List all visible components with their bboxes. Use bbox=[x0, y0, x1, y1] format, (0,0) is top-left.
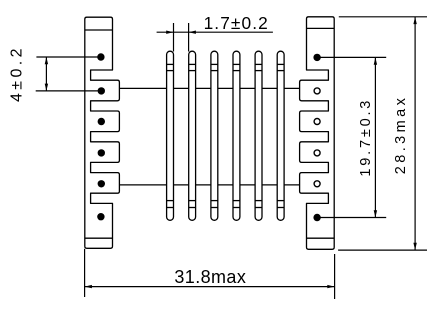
right flange top cap line bbox=[307, 27, 335, 29]
svg-text:28.3max: 28.3max bbox=[393, 95, 409, 174]
dim 31.8 dimension line bbox=[85, 286, 335, 288]
svg-text:19.7±0.3: 19.7±0.3 bbox=[358, 98, 374, 177]
fin 2 bbox=[189, 51, 196, 220]
dim 4 extension line b bbox=[36, 90, 101, 92]
left flange outline bbox=[85, 17, 120, 248]
svg-text:4±0.2: 4±0.2 bbox=[8, 45, 25, 102]
fin 1 bbox=[167, 51, 174, 220]
arrow 19.7 top (points up) bbox=[374, 57, 377, 64]
arrow 28.3 top (points up) bbox=[413, 17, 416, 24]
dim 19.7 leader top bbox=[317, 56, 386, 58]
fin 6 bbox=[277, 51, 284, 220]
dim 4 dimension line bbox=[45, 57, 47, 91]
right flange pin dots (filled) bbox=[313, 54, 320, 222]
arrow 4 bottom (points down) bbox=[45, 84, 48, 91]
dim 31.8 extension left bbox=[84, 249, 86, 297]
wire: upper winding line bbox=[119, 87, 299, 89]
dim 1.7 extension line a bbox=[173, 23, 175, 52]
dim 1.7 extension line b bbox=[188, 23, 190, 52]
arrow 31.8 left (points left) bbox=[85, 285, 92, 288]
dim 28.3 extension top bbox=[339, 16, 427, 18]
dim 19.7 dimension line bbox=[374, 57, 376, 217]
svg-text:1.7±0.2: 1.7±0.2 bbox=[204, 13, 269, 33]
dim 4 extension line a bbox=[36, 56, 101, 58]
fin band lines bottom bbox=[167, 201, 285, 208]
left flange top cap line bbox=[85, 29, 113, 31]
arrow 28.3 bottom (points down) bbox=[413, 243, 416, 250]
dim 28.3 dimension line bbox=[414, 17, 416, 250]
wire: lower winding line bbox=[119, 184, 299, 186]
left flange pin dots bbox=[97, 53, 105, 220]
right flange outline bbox=[300, 17, 335, 250]
dim 19.7 leader bottom bbox=[317, 217, 386, 219]
svg-text:31.8max: 31.8max bbox=[174, 267, 246, 287]
fin 3 bbox=[211, 51, 218, 220]
left flange bottom cap line bbox=[85, 237, 113, 239]
right flange bottom cap line bbox=[307, 237, 335, 239]
dim 31.8 extension right bbox=[334, 254, 336, 299]
dim 28.3 extension bottom bbox=[338, 249, 427, 251]
arrow 31.8 right (points right) bbox=[327, 285, 334, 288]
dim 1.7 dimension line bbox=[157, 31, 273, 33]
arrow 1.7 right (points left) bbox=[189, 31, 196, 34]
fin 5 bbox=[255, 51, 262, 220]
fin band lines top bbox=[167, 64, 285, 70]
arrow 4 top (points up) bbox=[45, 57, 48, 64]
arrow 1.7 left (points right) bbox=[166, 31, 173, 34]
arrow 19.7 bottom (points down) bbox=[374, 210, 377, 217]
fin 4 bbox=[233, 51, 240, 220]
right flange pin holes (open) bbox=[314, 88, 320, 187]
